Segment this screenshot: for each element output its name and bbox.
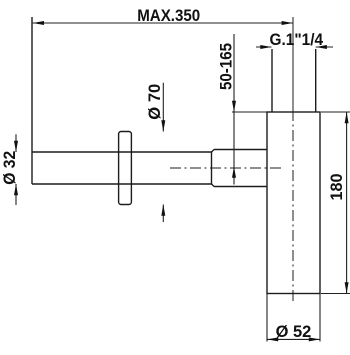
centerline vertical (body axis) [292, 17, 294, 302]
dimension MAX.350 left arrow [33, 21, 44, 25]
dimension G arrow left [260, 45, 271, 49]
dimension G arrow right [316, 45, 327, 49]
dimension MAX.350 line [33, 22, 293, 24]
dimension 50-165 line [233, 34, 235, 185]
dimension 180 line [346, 112, 348, 294]
svg-text:180: 180 [328, 174, 346, 201]
dimension 180 bottom arrow [345, 282, 349, 293]
dimension 50-165 up arrow [232, 167, 236, 178]
svg-text:G.1"1/4: G.1"1/4 [270, 31, 324, 49]
dimension MAX.350 right arrow [282, 21, 293, 25]
dimension Ø52 right arrow [309, 337, 320, 341]
flange Ø70 [119, 132, 132, 205]
dimension Ø32 top arrow [14, 141, 18, 152]
wall pipe Ø32 outline [32, 17, 212, 184]
svg-text:MAX.350: MAX.350 [137, 7, 200, 25]
dimension 180 extension lines [321, 112, 350, 294]
dimension Ø52 line [267, 338, 320, 340]
vertical outlet pipe G1 1/4 [272, 49, 316, 112]
dimension Ø32 bottom arrow [14, 184, 18, 195]
compression sleeve [212, 150, 268, 187]
dimension 50-165 down arrow [232, 101, 236, 112]
dimension Ø32 line [15, 134, 17, 205]
dimension Ø70 line [162, 83, 164, 222]
centerline horizontal (pipe axis) [170, 167, 284, 169]
trap body cylinder [267, 112, 320, 294]
dimension Ø70 top arrow [161, 120, 165, 131]
dimension Ø52 extension lines [267, 294, 320, 342]
dimension Ø70 bottom arrow [161, 205, 165, 216]
dimension 180 top arrow [345, 112, 349, 123]
svg-text:50-165: 50-165 [218, 43, 236, 90]
dimension 50-165 extension line at body top [232, 111, 267, 113]
svg-text:Ø 70: Ø 70 [146, 84, 164, 120]
dimension Ø52 left arrow [267, 337, 278, 341]
dimension G.1"1/4 line [256, 46, 333, 48]
svg-text:Ø 52: Ø 52 [276, 323, 312, 341]
svg-text:Ø 32: Ø 32 [1, 151, 19, 185]
